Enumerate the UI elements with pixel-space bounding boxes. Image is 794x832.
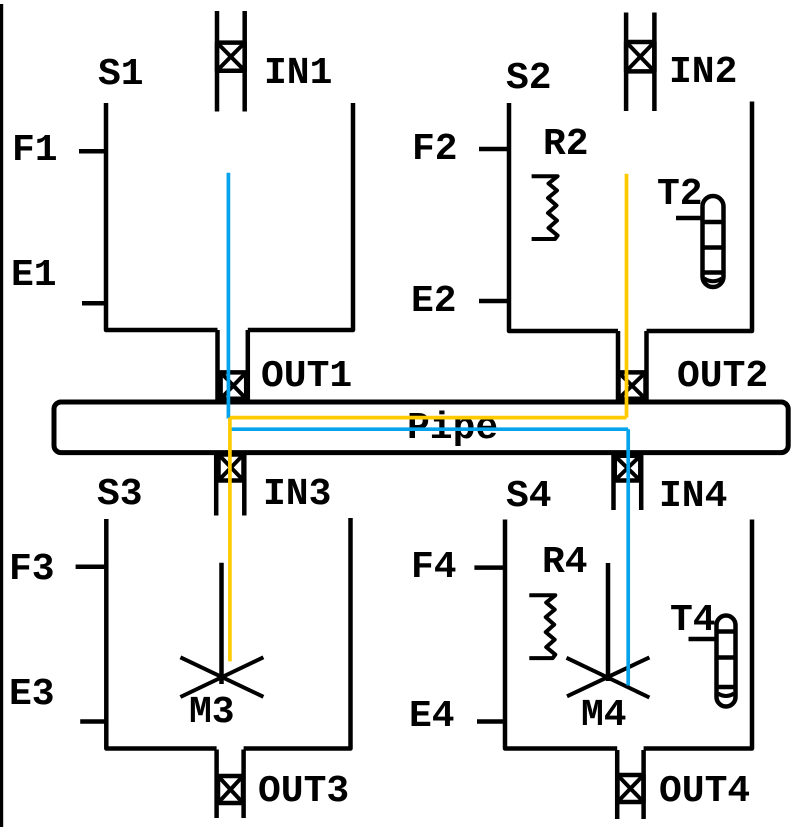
mixer M3 <box>180 563 263 734</box>
svg-text:OUT3: OUT3 <box>258 770 349 813</box>
heater R4 <box>529 541 587 658</box>
level sensor F3 <box>9 548 105 591</box>
svg-text:S1: S1 <box>98 53 144 96</box>
valve IN3 <box>216 452 331 516</box>
svg-text:F2: F2 <box>412 128 458 171</box>
svg-text:M4: M4 <box>581 694 627 737</box>
svg-text:OUT4: OUT4 <box>659 770 750 813</box>
yellow flow line along pipe <box>230 416 627 420</box>
tank S3 <box>97 473 351 749</box>
tank S4 <box>505 475 752 749</box>
thermometer T2 <box>657 173 724 287</box>
svg-text:M3: M3 <box>189 691 235 734</box>
tank S2 <box>506 57 752 331</box>
cyan flow line from IN1 through OUT1 into pipe <box>227 173 231 419</box>
level sensor F4 <box>411 546 504 589</box>
valve OUT2 <box>618 331 768 400</box>
valve IN4 <box>614 452 728 518</box>
svg-text:S3: S3 <box>97 473 143 516</box>
cyan flow line along pipe <box>230 427 628 431</box>
heater R2 <box>532 123 589 239</box>
svg-text:T2: T2 <box>657 173 703 216</box>
level sensor F2 <box>412 128 509 171</box>
tank S1 <box>98 53 353 330</box>
valve IN2 <box>626 13 737 112</box>
level sensor E3 <box>9 673 106 722</box>
svg-text:E3: E3 <box>9 673 55 716</box>
mixer M4 <box>567 563 650 737</box>
level sensor E4 <box>409 695 505 738</box>
yellow flow line through IN3 to mixer M3 <box>228 418 232 662</box>
cyan flow line through IN4 to mixer M4 <box>626 429 630 685</box>
svg-text:E2: E2 <box>411 280 457 323</box>
svg-text:S2: S2 <box>506 57 552 100</box>
svg-text:IN2: IN2 <box>669 51 737 94</box>
svg-text:IN1: IN1 <box>264 52 332 95</box>
valve OUT1 <box>218 330 353 400</box>
thermometer T4 <box>670 599 736 707</box>
svg-text:T4: T4 <box>670 599 716 642</box>
valve IN1 <box>217 11 332 112</box>
svg-text:R4: R4 <box>542 541 588 584</box>
svg-text:E1: E1 <box>11 254 57 297</box>
valve OUT3 <box>217 750 350 819</box>
level sensor E1 <box>11 254 108 303</box>
svg-text:OUT2: OUT2 <box>677 355 768 398</box>
svg-text:OUT1: OUT1 <box>261 355 352 398</box>
svg-text:F3: F3 <box>9 548 55 591</box>
svg-text:R2: R2 <box>543 123 589 166</box>
pipe <box>54 402 788 453</box>
svg-text:IN3: IN3 <box>263 473 331 516</box>
svg-text:IN4: IN4 <box>659 475 727 518</box>
svg-text:S4: S4 <box>506 475 552 518</box>
left figure border <box>0 4 3 827</box>
level sensor F1 <box>12 129 107 172</box>
svg-text:E4: E4 <box>409 695 455 738</box>
svg-text:F1: F1 <box>12 129 58 172</box>
svg-text:F4: F4 <box>411 546 457 589</box>
level sensor E2 <box>411 280 509 323</box>
yellow flow line from IN2 through OUT2 into pipe <box>625 174 629 418</box>
valve OUT4 <box>617 750 750 819</box>
